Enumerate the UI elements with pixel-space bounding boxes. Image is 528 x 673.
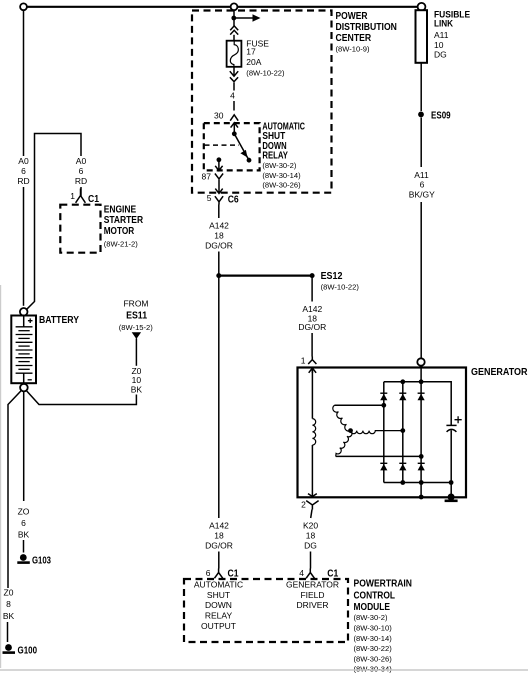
connector C1 PCM right chevron [306,569,314,579]
label wire A0 6 RD starter [75,156,87,186]
diode D4 [380,463,387,470]
rectifier column 1 [383,382,385,483]
battery plus sign [28,318,33,323]
ground generator case [445,494,458,501]
wire A142 from ES12 down to generator [311,278,313,302]
node battery positive terminal [20,308,28,316]
svg-text:ES09: ES09 [431,110,451,121]
svg-text:6: 6 [206,568,211,578]
node stator star point [348,428,353,433]
connector generator pin1 chevron [308,357,316,365]
label wire A142 18 DG/OR generator [298,304,326,332]
svg-text:C1: C1 [88,194,99,205]
node fusible link terminal [418,3,426,11]
svg-text:ZO: ZO [18,507,30,517]
label ASD relay output [194,580,243,631]
connector generator pin2 chevron [306,501,318,510]
svg-text:G103: G103 [32,556,51,567]
connector C1 PCM left chevron [214,569,222,579]
svg-text:(8W-30-34): (8W-30-34) [354,664,393,673]
stator winding B horizontal coil [351,431,403,434]
PDC exit arrow [215,188,222,193]
svg-text:(8W-15-2): (8W-15-2) [119,323,154,332]
svg-text:OUTPUT: OUTPUT [201,621,236,631]
svg-text:30: 30 [214,110,224,120]
label generator field driver [286,580,339,611]
svg-text:A11: A11 [414,170,429,180]
capacitor C1 noise suppressor [446,424,456,426]
label automatic shut down relay [262,121,305,161]
connector arrows below fuse [233,67,235,76]
diode D1 [380,393,387,400]
connector C1 starter chevron [76,189,86,203]
relay common dot [232,131,237,136]
svg-text:DG: DG [304,540,317,550]
powertrain control module box [184,579,348,642]
svg-text:ES12: ES12 [321,271,343,282]
svg-text:(8W-10-22): (8W-10-22) [246,69,285,78]
svg-text:G100: G100 [18,646,38,657]
wire fuse to pin30 [233,83,235,91]
svg-text:18: 18 [214,530,224,540]
node bottom bus col3 [419,480,424,485]
rectifier column 2 [402,382,404,483]
label powertrain control module [354,579,413,613]
wire top bus B+ [24,6,422,8]
svg-text:6: 6 [21,166,26,176]
svg-text:10: 10 [434,40,444,50]
svg-text:17: 17 [246,47,256,57]
connector C6 chevron [215,196,223,204]
svg-text:A142: A142 [209,220,229,230]
svg-text:DISTRIBUTION: DISTRIBUTION [336,22,397,33]
svg-text:(8W-21-2): (8W-21-2) [104,240,139,249]
node splice ES12 [310,273,315,278]
connector chevron pin 87 [215,174,223,179]
svg-text:C1: C1 [327,568,338,579]
wire A142 to PCM [218,552,220,569]
svg-text:CONTROL: CONTROL [354,590,396,601]
battery [11,316,36,384]
wire K20 to PCM [310,552,312,569]
svg-text:BK: BK [131,384,143,394]
svg-text:RD: RD [17,176,29,186]
node splice ES09 [418,112,424,118]
svg-text:5: 5 [207,193,212,203]
label wire A0 6 RD left [17,156,29,186]
wire ES12 splice bar [219,275,312,277]
svg-text:DG: DG [434,50,447,60]
svg-text:RELAY: RELAY [205,611,233,621]
svg-text:18: 18 [214,230,224,240]
wire 87 to C6 [218,180,220,189]
svg-text:ES11: ES11 [126,311,147,322]
label wire A11 6 BK/GY [409,170,435,200]
rectifier bottom bus [384,482,451,484]
svg-text:C1: C1 [228,568,239,579]
scan artifact bottom line [0,669,528,671]
svg-text:(8W-30-2): (8W-30-2) [262,161,297,170]
wire to relay [233,101,235,111]
svg-text:(8W-30-22): (8W-30-22) [354,644,393,653]
node battery feed terminal [20,3,27,10]
svg-text:C6: C6 [228,194,239,205]
label wire ZO 6 BK [18,507,30,540]
svg-text:(8W-30-14): (8W-30-14) [354,634,393,643]
node bottom bus col2 [400,480,405,485]
engine starter motor box [60,205,100,253]
wire A142 below ES12 left [218,278,220,518]
relay contact dot right [247,158,252,163]
fusible link [416,10,428,63]
scan artifact left edge line [0,285,2,668]
wire field upper [311,370,313,419]
svg-text:A0: A0 [18,156,29,166]
wire ground jumper to ES11 wire [26,391,136,405]
label wire K20 18 DG [303,520,318,550]
field coil L1 [312,419,315,445]
node phase B dot [400,428,405,433]
svg-text:DOWN: DOWN [205,600,232,610]
svg-text:(8W-30-26): (8W-30-26) [354,655,393,664]
node battery negative terminal [20,384,28,392]
stator phase A lead [335,404,384,406]
svg-text:8: 8 [6,599,11,609]
svg-text:6: 6 [21,518,26,528]
svg-text:GENERATOR: GENERATOR [471,367,528,378]
svg-text:1: 1 [301,355,306,365]
svg-text:LINK: LINK [434,18,454,28]
battery minus sign [28,379,32,381]
svg-text:2: 2 [301,500,306,510]
svg-text:BK: BK [3,611,15,621]
node PDC junction [231,16,236,21]
svg-text:(8W-30-26): (8W-30-26) [262,181,301,190]
battery plates [16,327,33,373]
svg-text:STARTER: STARTER [104,215,144,226]
svg-text:DG/OR: DG/OR [298,322,326,332]
wire K20 upper [311,510,312,519]
capacitor plus [455,416,462,423]
wire field lower [311,445,313,497]
svg-text:ENGINE: ENGINE [104,205,137,216]
stator phase C lead [336,455,422,457]
automatic shut down relay box [204,123,260,170]
generator pin1 entry arrow [309,368,316,373]
battery negative stub [23,373,25,383]
wire A142 from C6 [218,205,220,219]
wire Z0 8 BK branch to G100 [8,391,21,588]
svg-text:SHUT: SHUT [207,590,230,600]
svg-text:GENERATOR: GENERATOR [286,580,339,590]
svg-text:(8W-10-9): (8W-10-9) [336,45,371,54]
svg-text:FIELD: FIELD [300,590,324,600]
wire chevrons to fuse [233,35,235,41]
wire starter branch bracket [27,134,81,310]
svg-text:6: 6 [79,166,84,176]
label fusible link [434,9,470,28]
svg-text:4: 4 [299,568,304,578]
svg-text:BK: BK [18,530,30,540]
svg-text:A0: A0 [76,156,87,166]
wire PDC feed [233,10,235,26]
label wire A142 18 DG/OR lower [205,520,233,550]
battery positive stub [23,316,25,327]
relay contact dot 87 [217,157,222,162]
wire to generator pin 1 [311,333,313,357]
connector chevrons above fuse [230,26,238,35]
node phase A dot [381,403,386,408]
diode D6 [418,463,425,470]
svg-text:BATTERY: BATTERY [39,315,79,326]
wire starter branch lower [80,187,82,196]
node output to case [419,495,424,500]
wire A0 upper segment [23,10,25,156]
svg-text:DG/OR: DG/OR [205,240,233,250]
svg-text:CENTER: CENTER [336,33,372,44]
svg-text:18: 18 [306,530,316,540]
wire arrow continuation right [234,17,254,19]
wire Z0 8 BK lower [7,622,9,642]
svg-text:BK/GY: BK/GY [409,190,435,200]
label power distribution center [336,11,397,44]
ground G103 [17,554,30,563]
diode D3 [418,393,425,400]
svg-text:(8W-30-14): (8W-30-14) [262,171,301,180]
svg-text:MODULE: MODULE [354,602,391,613]
ground G100 [3,644,16,653]
relay pin87 exit arrow [215,160,222,171]
svg-text:20A: 20A [246,57,261,67]
stator winding A diagonal coil [333,405,351,431]
wire ZO 6 BK branch to G103 [23,391,25,501]
arrow from ES11 [132,332,141,339]
label wire A142 18 DG/OR upper [205,220,233,250]
stator winding C diagonal coil [336,431,352,457]
svg-text:6: 6 [420,180,425,190]
node bus dot col3 [419,379,424,384]
svg-text:(8W-30-2): (8W-30-2) [354,613,389,622]
relay pin30 entry arrow [231,123,238,134]
svg-text:Z0: Z0 [4,588,14,598]
svg-text:A142: A142 [209,520,229,530]
wire A11 below ES09 [420,118,422,168]
wire A11 10 DG [420,63,422,111]
svg-text:DRIVER: DRIVER [296,600,328,610]
svg-text:DG/OR: DG/OR [205,540,233,550]
node phase C dot [419,454,424,459]
rectifier top bus [384,382,451,425]
node splice ES12 left [216,273,221,278]
svg-text:FROM: FROM [123,299,148,309]
node bus dot col2 [400,379,405,384]
svg-text:4: 4 [230,90,235,100]
diode D2 [399,393,406,400]
svg-text:1: 1 [70,191,75,201]
svg-text:POWER: POWER [336,11,369,22]
wire Z0 10 BK upper [135,339,137,366]
svg-text:87: 87 [202,172,212,182]
label wire Z0 10 BK [131,366,143,394]
label FROM ES11 [119,299,154,332]
generator field exit arrow [308,494,317,497]
svg-text:POWERTRAIN: POWERTRAIN [354,579,413,590]
wire capacitor lower [450,430,452,497]
svg-text:K20: K20 [303,520,318,530]
wire A142 to ES12 [218,252,220,275]
svg-text:(8W-10-22): (8W-10-22) [321,283,360,292]
rectifier column 3 output [420,366,422,497]
svg-text:A11: A11 [434,30,449,40]
svg-text:MOTOR: MOTOR [104,226,135,237]
svg-text:RD: RD [75,176,87,186]
wire A11 to generator output [420,202,422,358]
node PDC feed terminal [231,3,238,10]
node capacitor bus dot [449,480,454,485]
power distribution center box [192,11,332,193]
generator box [298,368,467,498]
relay internal dashed line [205,144,240,146]
label fuse 17 20A [246,39,269,67]
label wire Z0 8 BK [3,588,15,622]
label engine starter motor [104,205,144,238]
wire ZO 6 BK lower [23,540,25,553]
svg-text:RELAY: RELAY [262,150,288,161]
svg-text:(8W-30-10): (8W-30-10) [354,623,393,632]
fuse F17 [227,41,242,67]
node generator output terminal [417,358,424,365]
connector chevron pin 30 [230,115,238,121]
svg-text:AUTOMATIC: AUTOMATIC [194,580,243,590]
relay switch arm [234,134,249,160]
diode D5 [399,463,406,470]
wire A0 lower segment to battery [23,187,25,306]
